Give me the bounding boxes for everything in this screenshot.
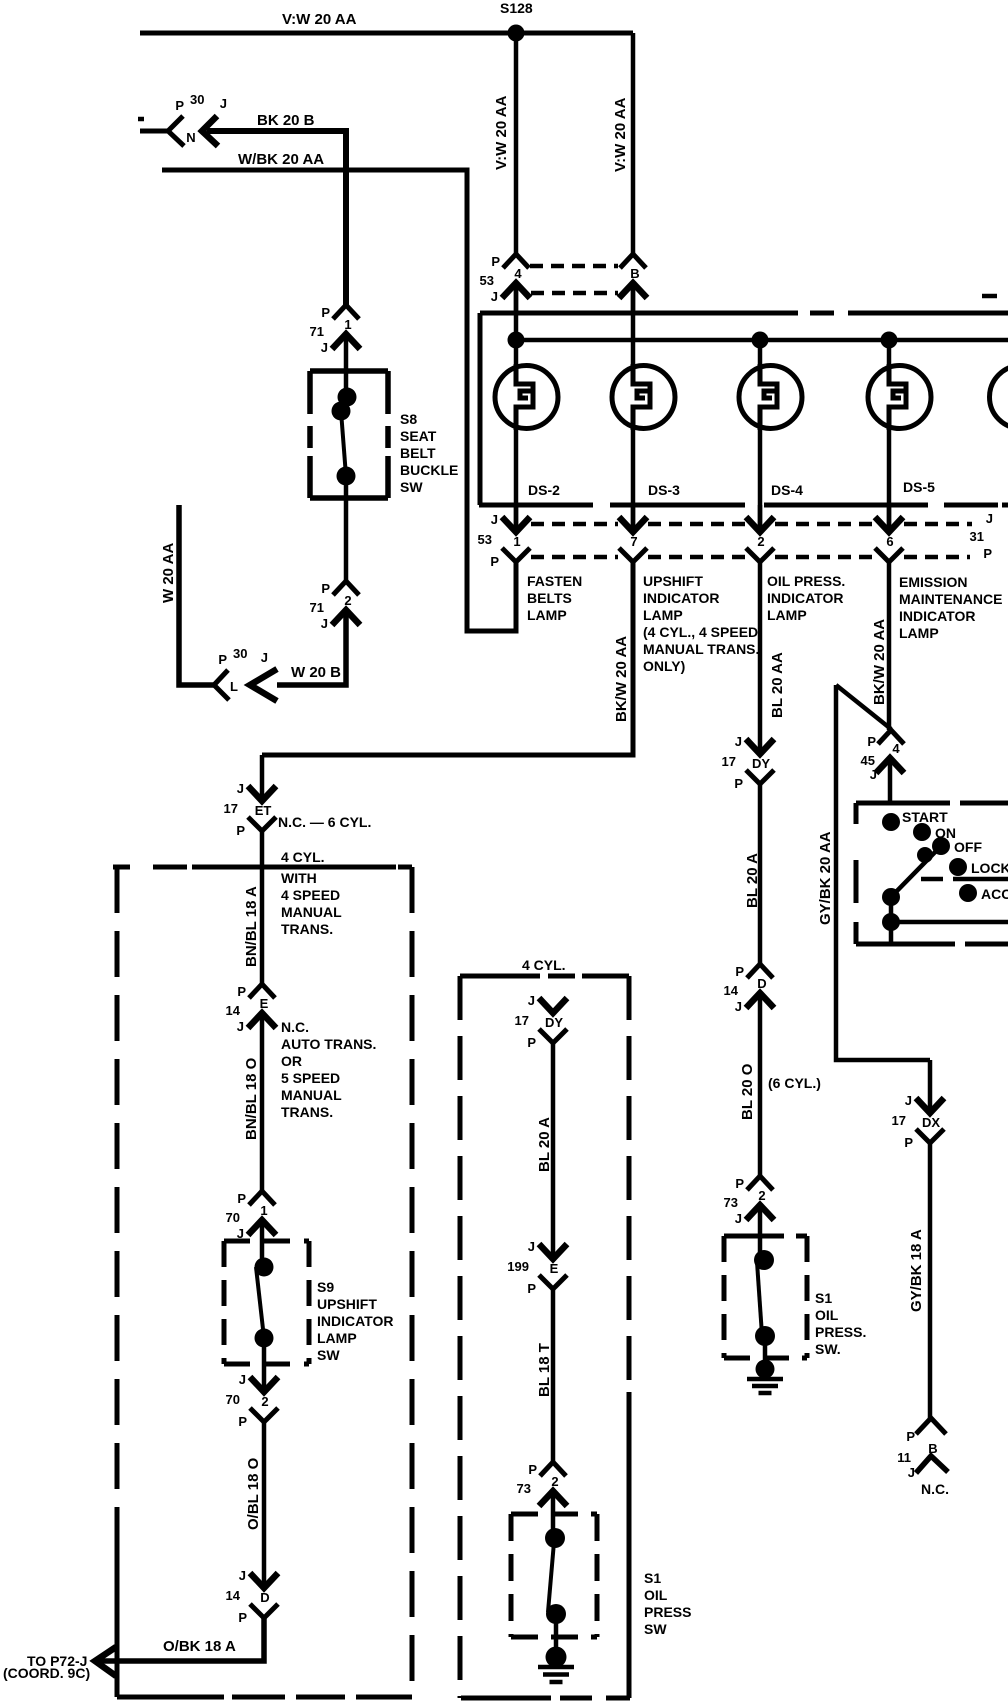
svg-text:DY: DY [752, 756, 770, 771]
svg-text:J: J [735, 999, 742, 1014]
svg-text:53: 53 [480, 273, 494, 288]
svg-text:N.C. — 6 CYL.: N.C. — 6 CYL. [278, 814, 371, 830]
wire lamp DS-4 to connector [758, 428, 763, 532]
svg-text:B: B [630, 266, 639, 281]
svg-text:P: P [983, 546, 992, 561]
svg-text:BK 20 B: BK 20 B [257, 112, 315, 129]
wire lamp DS-2 to connector [514, 428, 519, 532]
svg-text:P: P [238, 1414, 247, 1429]
svg-text:BL 20 O: BL 20 O [739, 1063, 756, 1120]
svg-text:O/BK 18 A: O/BK 18 A [163, 1638, 236, 1655]
wire BL 18 T [551, 1289, 556, 1462]
svg-text:DS-5: DS-5 [903, 479, 935, 495]
wire BL 20 O [758, 993, 763, 1176]
svg-text:BL 20 A: BL 20 A [536, 1117, 553, 1172]
svg-text:31: 31 [970, 529, 984, 544]
connector J-17 pin DY [746, 739, 774, 754]
svg-text:DS-2: DS-2 [528, 482, 560, 498]
connector J-17 pin DX [928, 1060, 933, 1113]
connector J-53 pin 6 [887, 505, 892, 532]
svg-text:S128: S128 [500, 0, 533, 16]
svg-text:2: 2 [344, 593, 351, 608]
svg-text:V:W 20 AA: V:W 20 AA [282, 11, 357, 28]
svg-text:PRESS.: PRESS. [815, 1324, 866, 1340]
wire BN/BL 18 A [260, 831, 265, 984]
svg-text:P: P [237, 1191, 246, 1206]
connector P-71 pin 1 [333, 305, 359, 319]
svg-text:BL 20 A: BL 20 A [744, 853, 761, 908]
svg-text:P: P [735, 964, 744, 979]
svg-text:LAMP: LAMP [527, 607, 567, 623]
connector P-30 pin L [250, 669, 277, 701]
svg-text:14: 14 [724, 983, 739, 998]
svg-text:UPSHIFT: UPSHIFT [643, 573, 703, 589]
svg-text:14: 14 [226, 1588, 241, 1603]
wire to lamp DS-4 [758, 340, 763, 366]
svg-text:OR: OR [281, 1053, 302, 1069]
svg-text:P: P [734, 776, 743, 791]
switch S1 oil press (4 cyl) [511, 1512, 597, 1517]
wire BK/W 20 AA emission [887, 562, 892, 730]
svg-text:4 SPEED: 4 SPEED [281, 887, 340, 903]
switch S8 seat belt buckle [310, 368, 388, 374]
connector J-53 dashed lines [531, 522, 618, 527]
svg-text:199: 199 [507, 1259, 529, 1274]
svg-text:11: 11 [897, 1450, 911, 1465]
wire BL 20 AA [758, 562, 763, 754]
ignition switch blade [891, 846, 941, 897]
svg-text:S8: S8 [400, 411, 417, 427]
svg-text:TRANS.: TRANS. [281, 1104, 333, 1120]
svg-text:5 SPEED: 5 SPEED [281, 1070, 340, 1086]
svg-text:UPSHIFT: UPSHIFT [317, 1296, 377, 1312]
svg-text:J: J [237, 1019, 244, 1034]
svg-text:70: 70 [226, 1210, 240, 1225]
svg-text:17: 17 [515, 1013, 529, 1028]
wire BL 20 A [758, 784, 763, 964]
svg-text:(6 CYL.): (6 CYL.) [768, 1075, 821, 1091]
svg-text:P: P [735, 1176, 744, 1191]
connector J-70 pin 2 [262, 1364, 267, 1392]
ground (S1) [756, 1360, 775, 1379]
lamp DS-3 [612, 366, 675, 429]
svg-text:6: 6 [886, 534, 893, 549]
svg-text:SEAT: SEAT [400, 428, 437, 444]
dashed box 4-cyl oil press [460, 974, 540, 979]
connector P-73 pin 2 (4 cyl) [540, 1462, 566, 1476]
svg-text:OIL: OIL [644, 1587, 668, 1603]
svg-text:LAMP: LAMP [767, 607, 807, 623]
svg-text:4: 4 [892, 741, 900, 756]
svg-text:L: L [230, 679, 238, 694]
svg-text:BELT: BELT [400, 445, 436, 461]
svg-text:ACC: ACC [981, 886, 1008, 902]
svg-text:BN/BL 18 O: BN/BL 18 O [243, 1057, 260, 1140]
svg-text:14: 14 [226, 1003, 241, 1018]
connector P-11 pin B N.C. [916, 1418, 946, 1434]
wire GY/BK 20 AA [836, 685, 891, 729]
svg-text:2: 2 [551, 1474, 558, 1489]
svg-text:PRESS: PRESS [644, 1604, 691, 1620]
svg-text:N.C.: N.C. [281, 1019, 309, 1035]
svg-text:1: 1 [513, 534, 520, 549]
svg-text:P: P [236, 823, 245, 838]
svg-text:BN/BL 18 A: BN/BL 18 A [243, 886, 260, 967]
svg-text:O/BL 18 O: O/BL 18 O [245, 1457, 262, 1530]
svg-text:J: J [735, 1211, 742, 1226]
wire to lamp DS-5 [887, 340, 892, 366]
connector dashed lines P4-B [530, 264, 618, 269]
svg-text:MAINTENANCE: MAINTENANCE [899, 591, 1002, 607]
svg-text:WITH: WITH [281, 870, 317, 886]
svg-text:2: 2 [261, 1394, 268, 1409]
wire V:W 20 AA top horizontal [140, 31, 633, 36]
svg-text:J: J [321, 340, 328, 355]
svg-text:30: 30 [233, 646, 247, 661]
wire to lamp DS-3 [631, 283, 636, 366]
svg-text:73: 73 [724, 1195, 738, 1210]
svg-text:FASTEN: FASTEN [527, 573, 582, 589]
svg-text:INDICATOR: INDICATOR [767, 590, 843, 606]
svg-text:DS-3: DS-3 [648, 482, 680, 498]
svg-text:OIL PRESS.: OIL PRESS. [767, 573, 845, 589]
svg-text:DY: DY [545, 1015, 563, 1030]
connector P-53 pin B [620, 254, 646, 268]
svg-text:J: J [237, 781, 244, 796]
wire V:W 20 AA right vertical branch [631, 33, 636, 254]
svg-text:BELTS: BELTS [527, 590, 572, 606]
svg-text:N: N [186, 130, 195, 145]
wire BK 20 B [207, 131, 346, 305]
svg-text:4 CYL.: 4 CYL. [522, 957, 566, 973]
svg-text:INDICATOR: INDICATOR [643, 590, 719, 606]
svg-text:DX: DX [922, 1115, 940, 1130]
svg-text:P: P [904, 1135, 913, 1150]
svg-text:1: 1 [260, 1203, 267, 1218]
svg-text:2: 2 [758, 1188, 765, 1203]
svg-text:2: 2 [757, 534, 764, 549]
svg-text:SW.: SW. [815, 1341, 841, 1357]
lamp DS-6 partial at right edge [990, 366, 1008, 429]
connector J-53 pin 1 [514, 505, 519, 532]
svg-text:71: 71 [310, 324, 324, 339]
connector P-73 pin 2 [747, 1176, 773, 1190]
junction dot lamp DS-4 feed [752, 332, 769, 349]
svg-text:BL 18 T: BL 18 T [536, 1343, 553, 1397]
wire W 20 B [277, 610, 346, 685]
ignition switch contacts [882, 813, 900, 831]
connector P-45 pin 4 [878, 730, 904, 744]
svg-text:W/BK 20 AA: W/BK 20 AA [238, 151, 324, 168]
svg-text:45: 45 [861, 753, 875, 768]
connector P-71 pin 2 [333, 581, 359, 595]
svg-text:J: J [220, 96, 227, 111]
wire S8 to connector pin 2 [344, 498, 349, 581]
lamp DS-5 [868, 366, 931, 429]
bus wire in cluster [516, 338, 1008, 343]
svg-text:J: J [491, 512, 498, 527]
svg-text:TRANS.: TRANS. [281, 921, 333, 937]
dash mark right [982, 294, 997, 299]
svg-text:MANUAL: MANUAL [281, 904, 342, 920]
svg-text:LAMP: LAMP [643, 607, 683, 623]
connector P-53 pin 4 [503, 254, 529, 268]
splice S128 [508, 25, 525, 42]
svg-text:1: 1 [344, 317, 351, 332]
connector J-53 pin 7 [631, 505, 636, 532]
wire lamp DS-3 to connector [631, 428, 636, 532]
svg-text:P: P [175, 98, 184, 113]
svg-text:BK/W 20 AA: BK/W 20 AA [871, 619, 888, 705]
svg-text:30: 30 [190, 92, 204, 107]
connector P-14 pin E [249, 984, 275, 998]
instrument cluster box [480, 311, 798, 316]
junction dot lamp DS-5 feed [881, 332, 898, 349]
svg-text:P: P [906, 1429, 915, 1444]
ignition switch output [882, 913, 900, 931]
svg-text:P: P [238, 1610, 247, 1625]
svg-text:E: E [260, 996, 269, 1011]
svg-text:S1: S1 [644, 1570, 661, 1586]
svg-text:W 20 B: W 20 B [291, 664, 341, 681]
svg-text:LAMP: LAMP [317, 1330, 357, 1346]
wire BL 20 A (4 cyl) [551, 1043, 556, 1259]
svg-text:71: 71 [310, 600, 324, 615]
connector J-53 pin 2 [758, 505, 763, 532]
wire BK/W 20 AA lamp DS-3 branch [262, 562, 633, 755]
svg-text:S1: S1 [815, 1290, 832, 1306]
svg-text:ET: ET [255, 803, 272, 818]
svg-text:SW: SW [400, 479, 423, 495]
svg-text:J: J [239, 1568, 246, 1583]
junction dot lamp DS-2 feed [508, 332, 525, 349]
svg-text:OIL: OIL [815, 1307, 839, 1323]
svg-text:J: J [528, 993, 535, 1008]
svg-text:V:W 20 AA: V:W 20 AA [493, 95, 510, 170]
wire W/BK 20 AA [162, 170, 516, 631]
svg-text:17: 17 [892, 1113, 906, 1128]
svg-text:LAMP: LAMP [899, 625, 939, 641]
connector J-14 pin D [250, 1573, 278, 1588]
wire O/BL 18 O [262, 1422, 267, 1588]
svg-text:P: P [237, 984, 246, 999]
svg-text:P: P [321, 305, 330, 320]
svg-text:J: J [905, 1093, 912, 1108]
svg-text:EMISSION: EMISSION [899, 574, 967, 590]
svg-text:53: 53 [478, 532, 492, 547]
svg-text:INDICATOR: INDICATOR [317, 1313, 393, 1329]
svg-text:S9: S9 [317, 1279, 334, 1295]
wire to lamp DS-2 [514, 283, 519, 366]
wire GY/BK 18 A [928, 1143, 933, 1418]
svg-text:ONLY): ONLY) [643, 658, 685, 674]
connector P-14 pin D [747, 964, 773, 978]
lamp DS-4 [739, 366, 802, 429]
lamp DS-2 [495, 366, 558, 429]
svg-text:INDICATOR: INDICATOR [899, 608, 975, 624]
svg-text:73: 73 [517, 1481, 531, 1496]
svg-text:MANUAL: MANUAL [281, 1087, 342, 1103]
svg-text:J: J [528, 1239, 535, 1254]
connector P-30 pin N [168, 116, 184, 146]
svg-text:V:W 20 AA: V:W 20 AA [612, 97, 629, 172]
svg-text:W 20 AA: W 20 AA [160, 543, 177, 603]
connector J-199 pin E [539, 1244, 567, 1259]
svg-text:70: 70 [226, 1392, 240, 1407]
svg-text:GY/BK 18 A: GY/BK 18 A [908, 1229, 925, 1312]
ground (4 cyl S1) [546, 1647, 567, 1668]
svg-text:P: P [321, 581, 330, 596]
switch S1 oil press [724, 1234, 807, 1239]
svg-text:J: J [908, 1465, 915, 1480]
svg-text:J: J [321, 616, 328, 631]
svg-text:N.C.: N.C. [921, 1481, 949, 1497]
connector J-17 pin DY (4 cyl) [539, 998, 567, 1013]
connector P-70 pin 1 [249, 1191, 275, 1205]
svg-text:START: START [902, 809, 948, 825]
svg-text:BL 20 AA: BL 20 AA [769, 652, 786, 718]
svg-text:AUTO TRANS.: AUTO TRANS. [281, 1036, 376, 1052]
svg-text:4 CYL.: 4 CYL. [281, 849, 325, 865]
svg-text:P: P [527, 1035, 536, 1050]
svg-text:P: P [528, 1462, 537, 1477]
connector J-17 pin ET [260, 755, 265, 801]
svg-text:BK/W 20 AA: BK/W 20 AA [613, 636, 630, 722]
wire lamp DS-5 to connector [887, 428, 892, 532]
svg-text:J: J [239, 1372, 246, 1387]
svg-text:(COORD. 9C): (COORD. 9C) [3, 1665, 90, 1681]
svg-text:P: P [218, 652, 227, 667]
svg-text:GY/BK 20 AA: GY/BK 20 AA [817, 831, 834, 925]
svg-text:(4 CYL., 4 SPEED: (4 CYL., 4 SPEED [643, 624, 758, 640]
svg-text:P: P [491, 254, 500, 269]
svg-text:P: P [867, 734, 876, 749]
svg-text:SW: SW [317, 1347, 340, 1363]
svg-text:J: J [986, 511, 993, 526]
svg-text:D: D [757, 976, 766, 991]
svg-text:BUCKLE: BUCKLE [400, 462, 458, 478]
wire O/BK 18 A to P72-J [96, 1618, 264, 1661]
svg-text:17: 17 [722, 754, 736, 769]
switch S9 upshift indicator lamp [224, 1239, 309, 1244]
ignition switch box [856, 801, 950, 806]
svg-text:P: P [490, 554, 499, 569]
svg-text:17: 17 [224, 801, 238, 816]
wire W 20 AA [179, 505, 214, 685]
svg-text:LOCK: LOCK [971, 860, 1008, 876]
svg-text:SW: SW [644, 1621, 667, 1637]
wire V:W 20 AA left vertical branch [514, 33, 519, 254]
svg-text:DS-4: DS-4 [771, 482, 803, 498]
svg-text:MANUAL TRANS.: MANUAL TRANS. [643, 641, 759, 657]
svg-text:J: J [491, 289, 498, 304]
svg-text:E: E [550, 1261, 559, 1276]
svg-text:7: 7 [630, 534, 637, 549]
svg-text:P: P [527, 1281, 536, 1296]
svg-text:J: J [735, 734, 742, 749]
dashed box 4-cyl upshift [113, 865, 130, 870]
svg-text:D: D [260, 1590, 269, 1605]
svg-text:OFF: OFF [954, 839, 982, 855]
svg-text:J: J [261, 650, 268, 665]
